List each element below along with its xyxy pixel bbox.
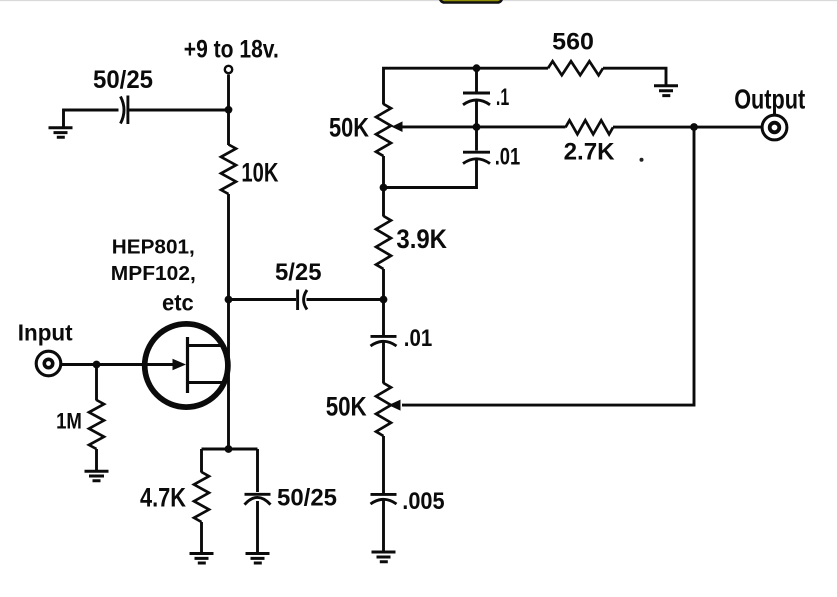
capacitor .01 bass bbox=[371, 336, 397, 346]
node: wiper junction at cap chain bbox=[473, 123, 481, 131]
svg-text:50K: 50K bbox=[329, 113, 369, 143]
resistor 2.7K bbox=[566, 120, 614, 134]
svg-text:50/25: 50/25 bbox=[93, 66, 153, 94]
wire: coupling run to tone network bbox=[229, 298, 384, 301]
svg-text:2.7K: 2.7K bbox=[564, 139, 616, 166]
capacitor 50/25 source bypass bbox=[245, 494, 271, 504]
ground under 4.7K bbox=[190, 554, 214, 564]
node: rail junction at cap chain bbox=[473, 64, 481, 72]
wire: bass wiper line to output branch bbox=[402, 127, 694, 405]
ground under 50/25 bbox=[246, 554, 270, 564]
wire: 10K to drain rail down to source node bbox=[227, 194, 230, 449]
wire: treble wiper line to output bbox=[402, 125, 761, 128]
svg-text:Output: Output bbox=[734, 84, 805, 115]
capacitor .01 feedback bbox=[463, 152, 490, 163]
transistor Q1 source lead bbox=[189, 381, 224, 384]
transistor Q1 gate arrow bbox=[173, 359, 187, 371]
capacitor 5/25 coupling bbox=[298, 290, 307, 311]
wire: source cap to ground bbox=[256, 501, 259, 552]
terminal Output jack bbox=[762, 115, 787, 140]
power terminal +9V bbox=[225, 66, 232, 73]
wire: supply node down to 10K bbox=[227, 110, 230, 145]
wire: 4.7K to ground bbox=[200, 522, 203, 552]
wire: 3.9K to mid junction bbox=[382, 269, 385, 300]
capacitor .005 bbox=[371, 494, 397, 504]
node: tone network mid junction bbox=[380, 296, 388, 304]
potentiometer 50K bass wiper arrow bbox=[389, 400, 401, 411]
transistor Q1 JFET circle bbox=[145, 324, 228, 407]
potentiometer 50K bass bbox=[376, 383, 391, 436]
svg-text:50K: 50K bbox=[326, 392, 367, 422]
ground under .005 bbox=[372, 552, 396, 562]
svg-text:Input: Input bbox=[18, 320, 73, 346]
wire: mid junction to .01 bbox=[382, 300, 385, 336]
svg-text:560: 560 bbox=[552, 29, 594, 56]
svg-text:+9 to 18v.: +9 to 18v. bbox=[184, 35, 279, 63]
svg-text:5/25: 5/25 bbox=[275, 259, 322, 286]
wire: power terminal to supply node bbox=[227, 75, 230, 111]
node: lower rail junction bbox=[380, 184, 388, 192]
wire: 1M to ground bbox=[95, 449, 98, 470]
node: supply junction bbox=[225, 106, 233, 114]
ground under 1M bbox=[85, 471, 109, 480]
wire: cap chain vertical bbox=[384, 68, 477, 187]
potentiometer 50K treble bbox=[376, 104, 391, 156]
transistor Q1 gate bar bbox=[186, 337, 189, 393]
svg-text:4.7K: 4.7K bbox=[140, 483, 186, 513]
svg-text:HEP801,: HEP801, bbox=[112, 236, 195, 259]
node: output junction bbox=[690, 123, 698, 131]
svg-text:.005: .005 bbox=[402, 488, 444, 515]
resistor 560 bbox=[548, 61, 603, 75]
terminal Input jack bbox=[36, 351, 61, 376]
ground top-left bbox=[49, 128, 73, 137]
svg-text:.01: .01 bbox=[495, 143, 521, 170]
yellow tab remnant bbox=[440, 0, 502, 3]
wire: gate wire from input bbox=[61, 363, 176, 366]
stray scan dot bbox=[640, 158, 644, 162]
wire: rail pot1 to 3.9K bbox=[382, 156, 385, 217]
node: source junction bbox=[225, 445, 233, 453]
svg-text:MPF102,: MPF102, bbox=[111, 262, 196, 285]
svg-text:50/25: 50/25 bbox=[277, 484, 337, 511]
resistor 4.7K bbox=[194, 472, 209, 522]
node: input junction bbox=[93, 361, 101, 369]
transistor Q1 drain lead bbox=[189, 344, 224, 347]
resistor 1M bbox=[89, 400, 104, 449]
browser top hairline bbox=[0, 0, 837, 2]
capacitor 50/25 bypass bbox=[121, 96, 128, 125]
wire: bypass rail left of supply node bbox=[64, 110, 229, 127]
resistor 3.9K bbox=[376, 216, 391, 269]
wire: source tee bbox=[202, 449, 258, 492]
wire: pot2 to .005 bbox=[382, 436, 385, 494]
wire: .005 to ground bbox=[382, 501, 385, 552]
svg-text:3.9K: 3.9K bbox=[396, 224, 447, 254]
node: coupling junction at drain bbox=[225, 296, 233, 304]
capacitor .1 bbox=[463, 93, 490, 105]
svg-text:etc: etc bbox=[162, 290, 194, 316]
resistor 10K bbox=[221, 145, 236, 195]
svg-text:10K: 10K bbox=[241, 157, 278, 187]
wire: .01 to pot2 bbox=[382, 343, 385, 384]
svg-text:.1: .1 bbox=[496, 84, 509, 111]
ground under 560 bbox=[654, 86, 678, 96]
potentiometer 50K treble wiper arrow bbox=[392, 121, 403, 132]
svg-text:.01: .01 bbox=[404, 325, 432, 352]
wire: top feedback rail bbox=[384, 68, 667, 104]
wire: input node down to 1M bbox=[95, 365, 98, 401]
svg-text:1M: 1M bbox=[56, 409, 82, 434]
